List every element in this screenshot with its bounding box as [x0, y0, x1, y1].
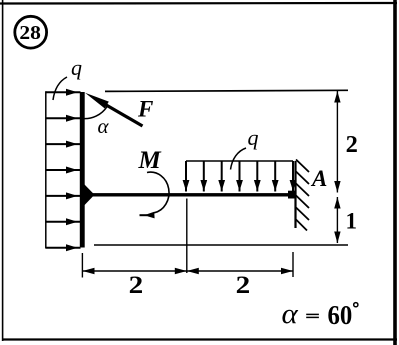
svg-text:M: M: [138, 147, 162, 174]
svg-text:A: A: [310, 166, 327, 191]
svg-text:q: q: [248, 125, 259, 150]
svg-text:60: 60: [328, 300, 353, 330]
svg-text:q: q: [71, 55, 82, 80]
svg-text:2: 2: [346, 131, 358, 158]
svg-text:α: α: [98, 114, 110, 138]
svg-text:1: 1: [346, 209, 358, 234]
svg-text:F: F: [137, 97, 153, 122]
svg-text:α: α: [282, 299, 300, 330]
svg-text:2: 2: [236, 272, 251, 299]
svg-text:2: 2: [129, 272, 144, 299]
svg-text:28: 28: [19, 23, 41, 44]
